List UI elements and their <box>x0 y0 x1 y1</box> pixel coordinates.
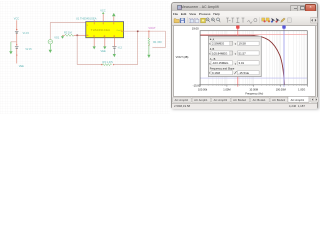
svg-text:19.00: 19.00 <box>192 26 199 30</box>
svg-text:R1 150: R1 150 <box>153 40 162 44</box>
svg-text:9.16M: 9.16M <box>212 71 221 75</box>
svg-text:1: 1 <box>113 36 114 38</box>
svg-text:3.01: 3.01 <box>239 61 245 65</box>
svg-text:AC Ampli2: AC Ampli2 <box>175 98 189 102</box>
svg-text:Out: Out <box>117 29 121 32</box>
svg-text:AC Ampli3: AC Ampli3 <box>214 98 228 102</box>
svg-text:Frequency and Slope: Frequency and Slope <box>210 66 235 70</box>
svg-text:VG1: VG1 <box>54 35 60 39</box>
svg-text:VOUT: VOUT <box>148 26 156 30</box>
svg-text:2.59MEG: 2.59MEG <box>212 41 225 45</box>
svg-text:51.57: 51.57 <box>239 51 247 55</box>
svg-text:-15.5/de: -15.5/de <box>239 71 250 75</box>
svg-text:VCC: VCC <box>14 18 19 21</box>
svg-text:VEE: VEE <box>101 49 106 53</box>
svg-text:-0.2: -0.2 <box>118 47 123 50</box>
svg-text:100.00M: 100.00M <box>276 87 286 91</box>
svg-text:AC Ampli1: AC Ampli1 <box>194 98 208 102</box>
svg-text:4: 4 <box>103 36 104 38</box>
svg-text:Frequency (Hz): Frequency (Hz) <box>246 91 264 95</box>
svg-text:V2 15: V2 15 <box>25 48 32 51</box>
svg-text:1.00M: 1.00M <box>223 87 230 91</box>
svg-text:V1 15: V1 15 <box>23 32 30 35</box>
svg-text:VOUT (dB): VOUT (dB) <box>176 55 189 59</box>
svg-text:R2 1M: R2 1M <box>64 30 72 34</box>
svg-text:105.84MEG: 105.84MEG <box>212 51 228 55</box>
svg-text:AC Bode3: AC Bode3 <box>272 98 285 102</box>
svg-text:AC Bode2: AC Bode2 <box>233 98 246 102</box>
svg-text:AC Ampli1: AC Ampli1 <box>291 98 305 102</box>
svg-text:-15.00: -15.00 <box>193 83 201 87</box>
svg-text:THS3491CEA: THS3491CEA <box>91 28 110 32</box>
svg-text:1.00G: 1.00G <box>298 87 305 91</box>
svg-text:VEE: VEE <box>19 65 24 68</box>
svg-text:AC Bode1: AC Bode1 <box>253 98 266 102</box>
svg-text:R3 1.47k: R3 1.47k <box>103 60 114 64</box>
svg-text:19.58: 19.58 <box>239 41 247 45</box>
svg-text:10.00M: 10.00M <box>250 87 259 91</box>
svg-text:7: 7 <box>93 36 94 38</box>
svg-text:100.00k: 100.00k <box>198 87 208 91</box>
svg-text:VCC: VCC <box>100 8 106 12</box>
svg-text:U1 THS3491GEA: U1 THS3491GEA <box>76 17 97 21</box>
svg-text:-103.15MEG: -103.15MEG <box>212 61 229 65</box>
